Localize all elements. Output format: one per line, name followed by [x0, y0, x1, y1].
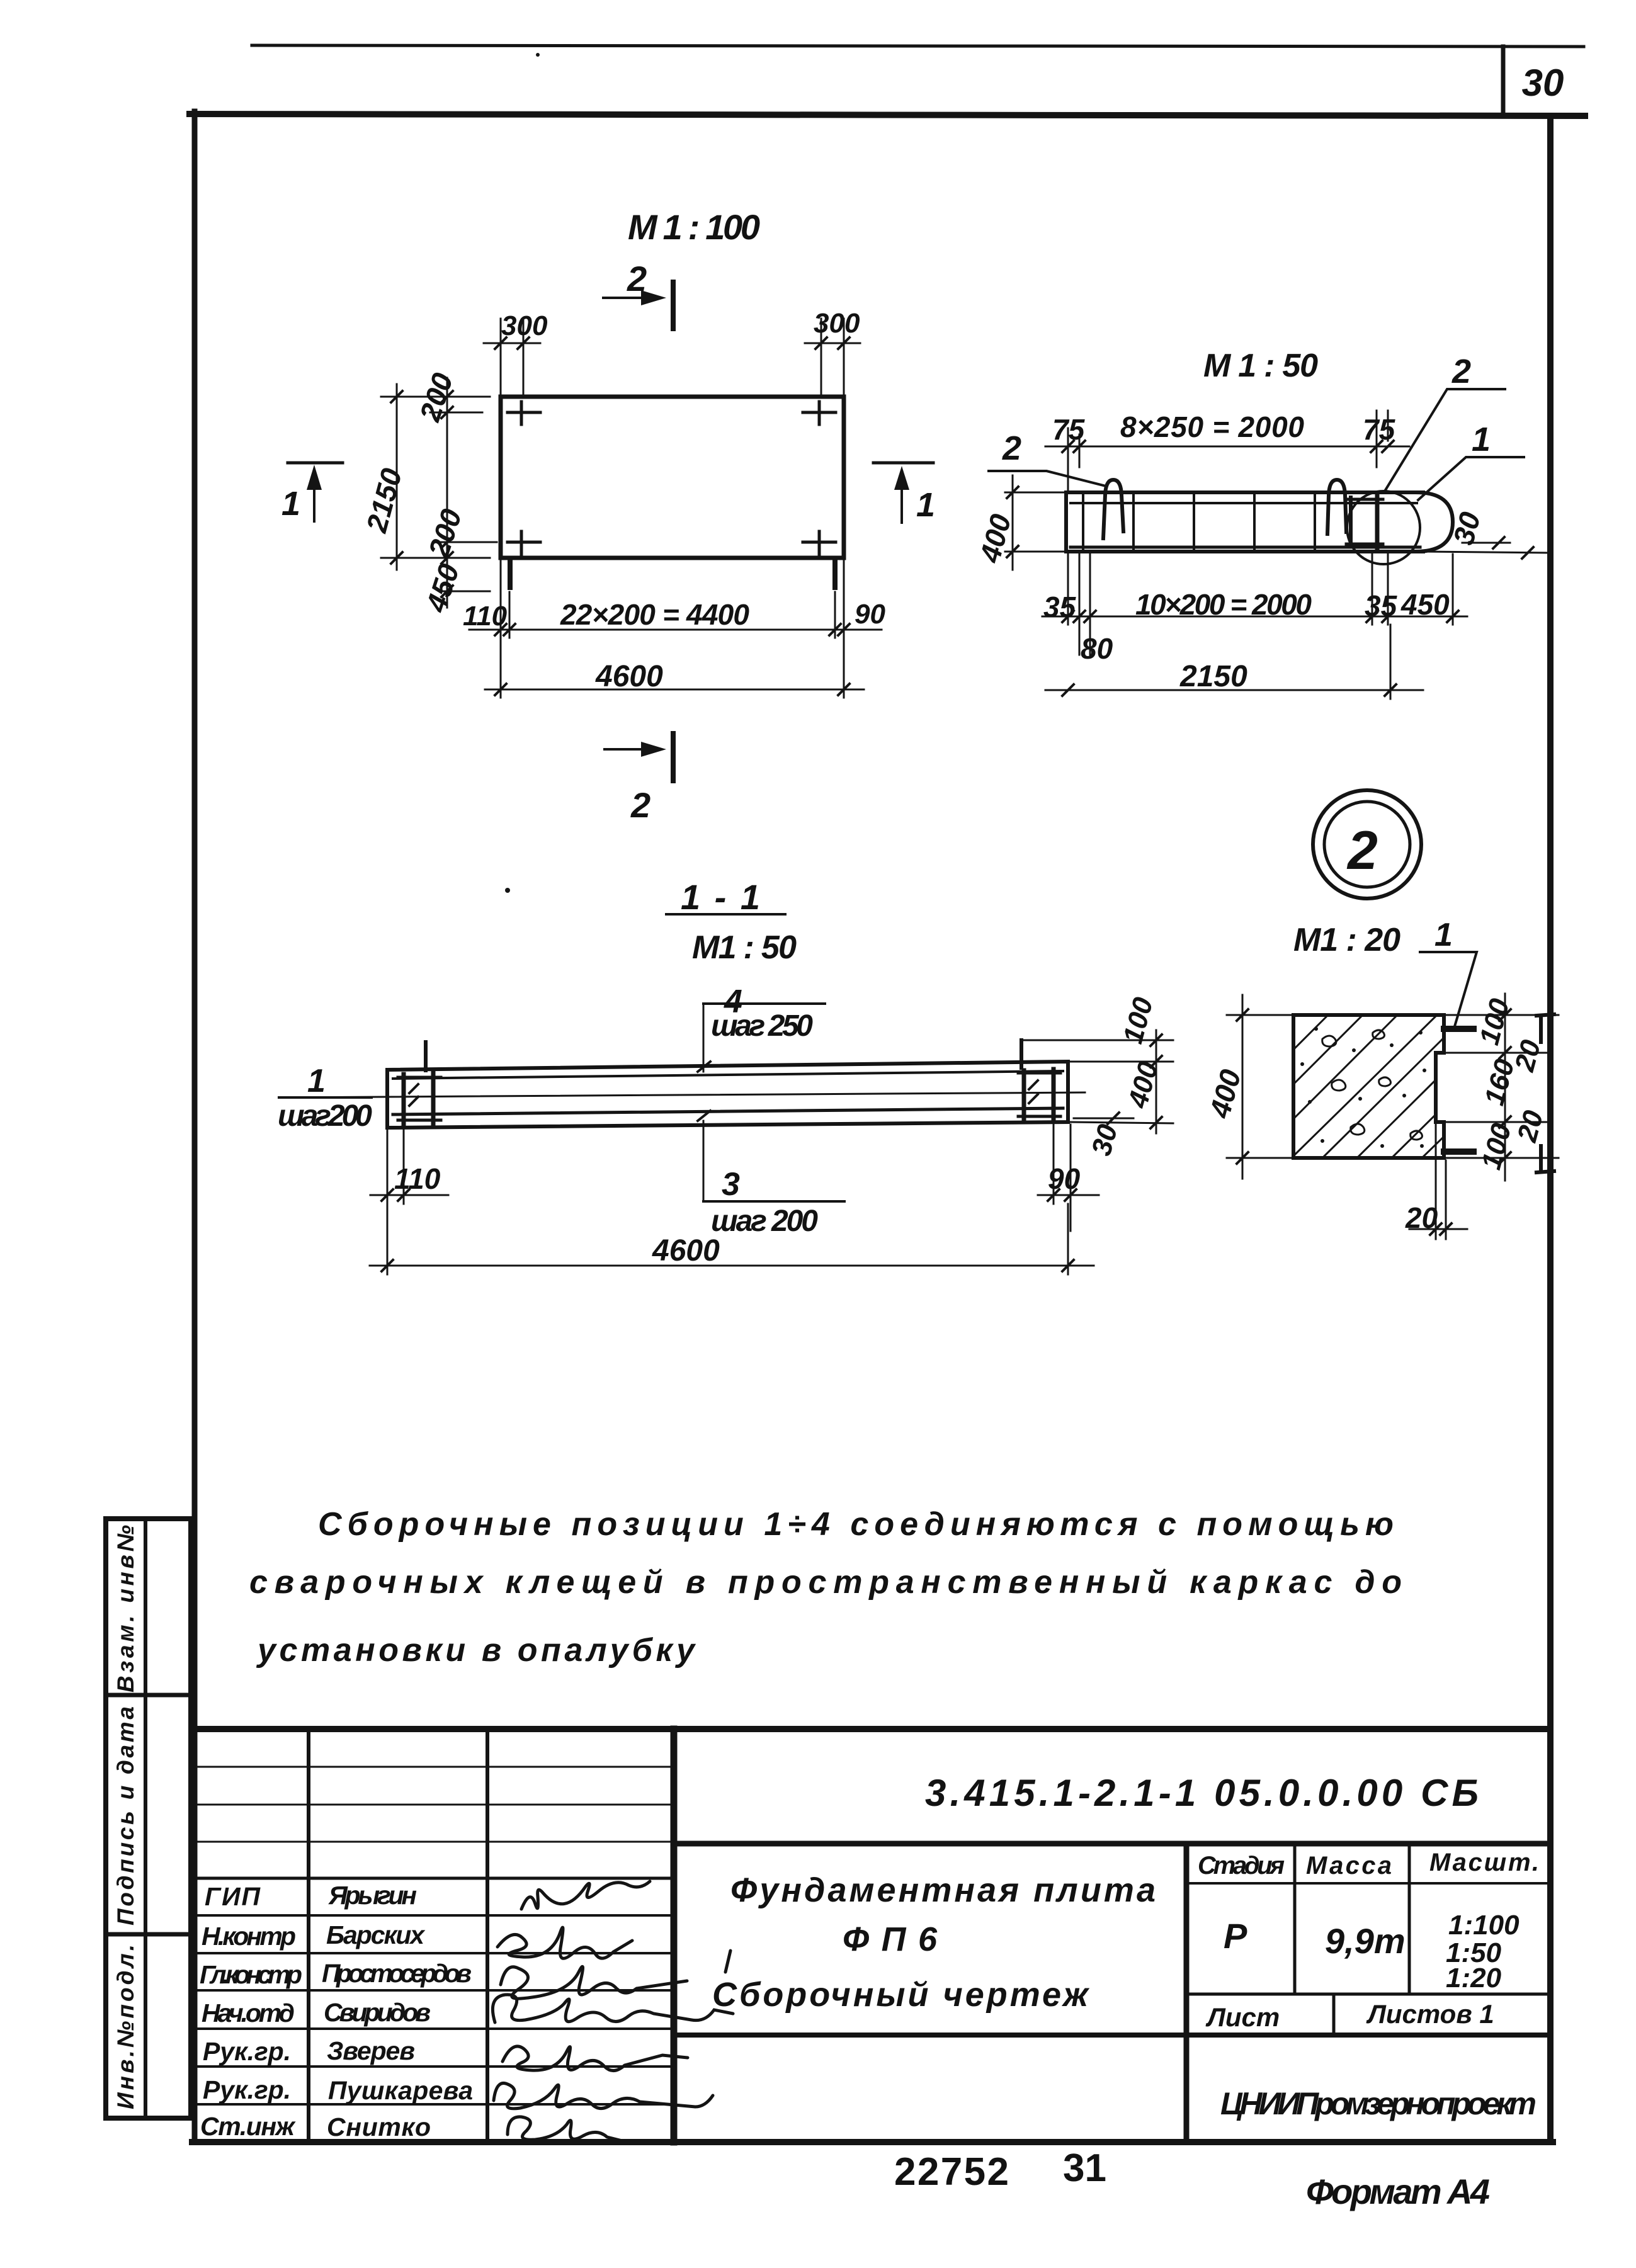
- dim 400: extension lines: [1227, 1014, 1293, 1016]
- dim 300 right-top: dim line with ticks: [805, 343, 860, 344]
- signature table name texts: [322, 1881, 473, 2141]
- stirrup 5: [1314, 496, 1316, 548]
- svg-text:Масса: Масса: [1306, 1852, 1392, 1880]
- dim 300 right-top: extension lines: [821, 319, 822, 397]
- concrete hatching: [1293, 1015, 1444, 1158]
- label 3: line: [703, 1200, 844, 1203]
- svg-text:300: 300: [814, 308, 860, 339]
- corner cross bottom-right: [803, 531, 836, 554]
- svg-text:2: 2: [1002, 429, 1021, 467]
- svg-text:Р: Р: [1224, 1916, 1247, 1956]
- dim 90: extension lines: [1053, 1122, 1055, 1204]
- svg-text:8×250 = 2000: 8×250 = 2000: [1120, 411, 1304, 443]
- dim 400: dim line: [1242, 995, 1244, 1179]
- label 3: leader: [703, 1121, 705, 1201]
- section marker 2 bottom: plane bar: [671, 734, 676, 781]
- section marker 2 top: arrow line: [603, 297, 655, 299]
- title area: document number box bottom line: [674, 1841, 1550, 1847]
- label 4: leader: [703, 1004, 705, 1072]
- list row top line: [1186, 1993, 1550, 1996]
- lifting loop left: [1103, 480, 1123, 538]
- svg-text:Свиридов: Свиридов: [324, 1998, 431, 2027]
- dim 8x250 top: extension lines: [1067, 428, 1069, 491]
- dowel bar right below plate: [832, 560, 838, 587]
- signature Ярыгин: [521, 1881, 650, 1909]
- svg-text:9,9т: 9,9т: [1325, 1921, 1406, 1961]
- signature Снитко: [508, 2117, 661, 2143]
- bottom chain extension lines: [500, 558, 502, 638]
- svg-text:Ярыгин: Ярыгин: [328, 1881, 417, 1910]
- dim 400 left: extension lines: [1005, 492, 1066, 494]
- right end cage: bars: [1022, 1070, 1026, 1121]
- dim 30 right ticks: [1493, 537, 1533, 558]
- detail callout: outer circle: [1313, 790, 1421, 899]
- end cage bar left: [1349, 497, 1353, 547]
- beam outline with bullnose end: [1416, 492, 1453, 552]
- svg-text:1:20: 1:20: [1446, 1963, 1502, 1993]
- svg-text:2: 2: [1451, 353, 1471, 390]
- svg-text:2: 2: [630, 785, 650, 825]
- svg-text:1: 1: [307, 1063, 326, 1099]
- right cage tick marks: [1029, 1080, 1038, 1103]
- svg-text:Пушкарева: Пушкарева: [328, 2076, 473, 2105]
- page number box divider: [1501, 47, 1506, 116]
- section marker 1 right: arrow: [900, 476, 903, 523]
- dim 2150: dim line: [396, 384, 398, 570]
- svg-text:Сборочные позиции 1÷4 со: Сборочные позиции 1÷4 соединяются с помо…: [318, 1506, 1394, 1543]
- bottom chain: extension lines: [1067, 554, 1069, 625]
- rebar stub bottom: [1444, 1148, 1474, 1155]
- plate outline (plan): [501, 397, 844, 558]
- svg-text:Масшт.: Масшт.: [1429, 1849, 1539, 1876]
- right chain: dim line: [1504, 994, 1506, 1181]
- left cage tick marks: [409, 1084, 418, 1106]
- dim 4600: extension lines: [387, 1204, 389, 1274]
- svg-text:Взам. инв№: Взам. инв№: [113, 1525, 139, 1692]
- left end cage: pin above: [424, 1042, 428, 1070]
- svg-text:1:100: 1:100: [1448, 1910, 1520, 1941]
- right dims: dim line: [1156, 1030, 1157, 1133]
- svg-text:Формат А4: Формат А4: [1306, 2172, 1490, 2211]
- svg-text:22752: 22752: [894, 2150, 1009, 2194]
- right chain: extension lines: [1446, 1014, 1559, 1016]
- dim 90: dim line: [1038, 1194, 1099, 1196]
- end cage bar right: [1375, 495, 1380, 549]
- title block top line: [195, 1726, 1550, 1732]
- label 2 left: underline and leader: [989, 471, 1106, 486]
- bottom rebar line: [393, 1108, 1063, 1114]
- svg-text:2: 2: [1346, 820, 1378, 881]
- signature table right edge: [671, 1729, 678, 2142]
- section marker 2 bottom: arrow line: [605, 748, 655, 751]
- svg-text:шаг 200: шаг 200: [711, 1205, 818, 1238]
- left dim chain extension lines: [381, 396, 490, 398]
- svg-text:110: 110: [463, 601, 508, 632]
- section marker 1 right: plane bar: [873, 462, 933, 465]
- svg-text:22×200 = 4400: 22×200 = 4400: [560, 598, 749, 631]
- section marker 1 left: arrow: [313, 476, 315, 521]
- end cage bottom hook: [1346, 543, 1383, 546]
- bottom longitudinal bar: [1071, 546, 1420, 549]
- label 1 right: underline and leader: [1418, 457, 1524, 500]
- svg-text:30: 30: [1522, 62, 1564, 104]
- section title underline: [666, 913, 785, 916]
- concrete section outline with key notch: [1293, 1015, 1444, 1158]
- svg-text:2150: 2150: [1179, 660, 1247, 693]
- dim 110: extension lines: [387, 1130, 389, 1204]
- aggregate dots: [1300, 1027, 1426, 1148]
- dim 2150: dim line: [1045, 689, 1423, 691]
- svg-text:1: 1: [281, 485, 300, 523]
- stirrup 3: [1193, 496, 1195, 548]
- right end cage: pin above: [1020, 1040, 1023, 1068]
- dim 300 left-top: extension lines: [500, 319, 502, 397]
- svg-text:ЦНИИПромзернопроект: ЦНИИПромзернопроект: [1220, 2086, 1537, 2121]
- corner cross bottom-left: [508, 531, 540, 554]
- dim 30 small ticks: [1108, 1113, 1119, 1124]
- rebar stub top: [1444, 1026, 1474, 1032]
- long leader line pos1: [281, 1092, 1085, 1097]
- stray scan dot top: [536, 53, 540, 57]
- stadia column dividers: [1293, 1844, 1297, 1994]
- svg-text:М 1 : 50: М 1 : 50: [1203, 348, 1318, 384]
- svg-text:Нач.отд: Нач.отд: [202, 1999, 295, 2027]
- svg-text:Ст.инж: Ст.инж: [200, 2112, 296, 2141]
- top trim line: [252, 45, 1584, 47]
- svg-text:80: 80: [1081, 632, 1113, 665]
- label 2 upper-right: underline and leader: [1385, 389, 1505, 491]
- signature Барских: [497, 1927, 632, 1958]
- svg-text:Рук.гр.: Рук.гр.: [203, 2075, 291, 2104]
- anchor symbol bottom: [1537, 1146, 1554, 1172]
- anchor symbol top: [1537, 1014, 1554, 1042]
- signature Свиридов: [492, 1995, 733, 2022]
- beam outline (long section): [387, 1062, 1068, 1128]
- svg-text:90: 90: [855, 599, 885, 630]
- bottom chain dim line 22x200: [469, 629, 882, 631]
- svg-text:М 1 : 100: М 1 : 100: [628, 207, 760, 247]
- svg-text:шаг 250: шаг 250: [711, 1009, 813, 1043]
- svg-text:Сборочный чертеж: Сборочный чертеж: [712, 1976, 1090, 2014]
- bottom dim 20: dim line: [1409, 1228, 1467, 1230]
- svg-text:75: 75: [1052, 413, 1086, 446]
- svg-text:Фундаментная плита: Фундаментная плита: [730, 1871, 1156, 1909]
- stirrup 4: [1253, 496, 1256, 548]
- section marker 2 top: plane bar: [671, 282, 676, 329]
- stirrup 1: [1082, 496, 1084, 548]
- svg-text:Простосердов: Простосердов: [322, 1959, 472, 1988]
- dim chain 200/200/450: dim line: [446, 378, 448, 608]
- stadia header row bottom: [1186, 1882, 1550, 1885]
- lifting loop right: [1327, 480, 1346, 534]
- svg-text:450: 450: [1400, 588, 1450, 621]
- stray scan dot middle: [505, 888, 510, 893]
- svg-text:шаг200: шаг200: [278, 1099, 372, 1133]
- label 1 left: underline: [279, 1096, 372, 1099]
- detail callout: inner circle: [1324, 802, 1410, 887]
- list row divider: [1332, 1994, 1336, 2035]
- svg-text:35: 35: [1043, 591, 1077, 623]
- svg-text:ФП6: ФП6: [843, 1920, 938, 1958]
- dim 4600: dim line: [370, 1265, 1094, 1267]
- dowel bar left below plate: [508, 560, 513, 587]
- right dims: extension lines: [1021, 1040, 1173, 1041]
- detail callout circle: [1347, 491, 1420, 564]
- section marker 1 left: plane bar: [288, 462, 343, 465]
- svg-text:1: 1: [916, 486, 935, 524]
- corner cross top-left: [508, 402, 540, 424]
- name/stamp divider vertical: [1184, 1844, 1190, 2142]
- section marker 2 bottom: arrowhead: [641, 742, 666, 757]
- dim 8x250 top: dim line: [1045, 446, 1409, 448]
- svg-text:31: 31: [1063, 2146, 1106, 2190]
- section marker 2 top: arrowhead: [641, 290, 666, 305]
- left end cage: top/bottom hooks: [398, 1077, 441, 1120]
- svg-text:1: 1: [1472, 421, 1491, 458]
- aggregate pebbles: [1322, 1030, 1423, 1140]
- left stamp divider 2: [106, 1932, 191, 1937]
- svg-text:Листов 1: Листов 1: [1366, 1999, 1494, 2029]
- svg-text:Н.контр: Н.контр: [202, 1922, 296, 1951]
- dim 400 left: dim line: [1012, 475, 1014, 570]
- bottom chain dim line: [1042, 616, 1467, 618]
- svg-text:Зверев: Зверев: [327, 2036, 415, 2065]
- svg-text:Снитко: Снитко: [327, 2112, 431, 2141]
- left stamp divider 1: [106, 1693, 191, 1698]
- signature Простосердов: [501, 1951, 730, 1999]
- svg-text:М1 : 50: М1 : 50: [692, 929, 797, 966]
- signature table column divider 2: [486, 1729, 489, 2142]
- stirrup 2: [1132, 496, 1135, 548]
- svg-text:300: 300: [501, 310, 548, 341]
- svg-text:3: 3: [722, 1166, 740, 1203]
- bottom dim 20: extension lines: [1435, 1122, 1437, 1239]
- signature table row lines: [195, 1766, 674, 1768]
- dim 110: dim line: [370, 1194, 448, 1196]
- left stamp inner divider vertical: [144, 1519, 147, 2118]
- svg-text:20: 20: [1405, 1201, 1438, 1234]
- dim 30 right: extension lines: [1462, 542, 1510, 544]
- dim 4600: dim line: [485, 689, 864, 691]
- svg-text:1: 1: [1434, 917, 1453, 953]
- svg-text:35: 35: [1365, 589, 1398, 622]
- name box bottom line: [674, 2033, 1550, 2038]
- label 1: underline and leader: [1420, 952, 1477, 1026]
- svg-text:М1 : 20: М1 : 20: [1293, 922, 1400, 958]
- svg-text:ГИП: ГИП: [205, 1882, 261, 1911]
- signature table column divider 1: [307, 1729, 310, 2142]
- svg-text:3.415.1-2.1-1 05.0.0.00 СБ: 3.415.1-2.1-1 05.0.0.00 СБ: [925, 1772, 1479, 1814]
- svg-text:Подпись и дата: Подпись и дата: [113, 1706, 139, 1925]
- svg-text:Гл.констр: Гл.констр: [200, 1960, 302, 1989]
- label 4: line: [703, 1002, 825, 1005]
- right end cage: top/bottom hooks: [1018, 1073, 1060, 1116]
- svg-text:Рук.гр.: Рук.гр.: [203, 2037, 291, 2066]
- drawing frame border: [190, 114, 1585, 116]
- signature Зверев: [503, 2046, 688, 2071]
- svg-text:90: 90: [1048, 1162, 1081, 1195]
- left stamp outer box: [106, 1519, 191, 2118]
- end cage top hook: [1346, 498, 1383, 501]
- svg-text:75: 75: [1363, 413, 1396, 446]
- top rebar line: [393, 1071, 1063, 1079]
- svg-text:110: 110: [394, 1162, 441, 1195]
- svg-text:Барских: Барских: [326, 1920, 426, 1949]
- svg-text:сварочных клещей в прост: сварочных клещей в пространственный карк…: [249, 1564, 1402, 1601]
- svg-text:10×200 = 2000: 10×200 = 2000: [1135, 588, 1312, 621]
- dim 4600 extension lines: [500, 638, 502, 698]
- svg-text:1 - 1: 1 - 1: [681, 877, 760, 917]
- dim 2150 extension line right: [1390, 625, 1392, 699]
- svg-text:Стадия: Стадия: [1198, 1852, 1285, 1880]
- signature table role texts: [200, 1882, 302, 2141]
- signature Пушкарева: [494, 2083, 713, 2108]
- left end cage: bars: [402, 1074, 406, 1125]
- svg-text:4600: 4600: [595, 660, 663, 693]
- dim 300 left-top: dim line with ticks: [484, 343, 540, 344]
- top longitudinal bar: [1071, 502, 1417, 504]
- svg-text:4600: 4600: [652, 1234, 720, 1267]
- svg-text:Лист: Лист: [1205, 2002, 1280, 2032]
- corner cross top-right: [803, 402, 836, 424]
